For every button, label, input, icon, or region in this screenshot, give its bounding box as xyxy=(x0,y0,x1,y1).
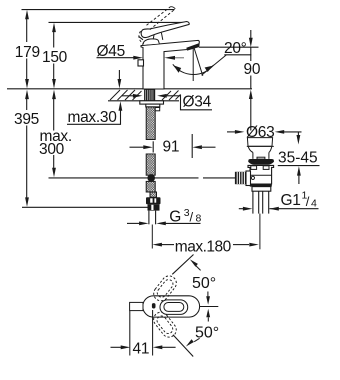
supply hose middle xyxy=(146,154,155,175)
drain bell neck xyxy=(248,147,272,153)
drain body mid line xyxy=(250,174,272,176)
supply hose lower xyxy=(146,181,155,192)
max180 dim line xyxy=(162,244,250,246)
dimension 395 vertical line xyxy=(26,98,28,200)
cartridge dome xyxy=(143,39,160,45)
max30 top arrow line xyxy=(118,70,120,81)
dimension max300 vertical line xyxy=(53,98,55,170)
shank washer xyxy=(140,101,164,104)
angle arc arrowheads xyxy=(173,65,181,72)
max30 label frame xyxy=(67,110,121,125)
drain tailpipe xyxy=(253,191,269,213)
svg-text:/: / xyxy=(306,194,310,209)
rod knurled knob xyxy=(235,172,246,184)
drain flange rim xyxy=(247,145,274,147)
Ø34 label frame xyxy=(181,95,213,110)
dim 90 vertical line xyxy=(250,30,252,131)
bottom reference line hoses xyxy=(22,206,148,208)
shank nut xyxy=(146,104,160,107)
dashed rotated lever up xyxy=(151,273,180,340)
lever neck xyxy=(153,33,163,40)
dimension 179 vertical line xyxy=(26,17,28,81)
svg-text:Ø63: Ø63 xyxy=(246,124,274,141)
svg-text:395: 395 xyxy=(14,111,39,128)
svg-text:50°: 50° xyxy=(195,325,219,342)
G38 tube extension line xyxy=(151,225,153,249)
svg-text:179: 179 xyxy=(15,44,40,61)
angle arc xyxy=(173,64,214,74)
deck top line xyxy=(7,88,252,90)
svg-text:150: 150 xyxy=(42,49,68,66)
drain flange cup xyxy=(247,138,272,147)
G38 fitting lower xyxy=(148,204,160,210)
Ø34 arrows lines xyxy=(122,95,180,97)
overflow notch xyxy=(257,157,265,159)
drain body bottom band xyxy=(250,184,272,187)
rod pivot pin xyxy=(251,176,254,179)
drain locknut xyxy=(252,187,271,192)
aerator xyxy=(187,44,199,50)
faucet body front view xyxy=(141,40,199,89)
drain body clips xyxy=(251,166,257,170)
svg-text:41: 41 xyxy=(133,341,150,358)
svg-text:Ø45: Ø45 xyxy=(97,43,125,60)
svg-text:4: 4 xyxy=(311,198,317,210)
svg-text:90: 90 xyxy=(244,61,261,78)
arrowheads dims xyxy=(25,10,301,349)
deck bottom line xyxy=(108,100,179,102)
pop-up drain: Ø63 dim line xyxy=(227,131,302,133)
hose side tab xyxy=(155,108,160,111)
rod bracket xyxy=(246,171,251,186)
svg-text:max.180: max.180 xyxy=(175,239,232,256)
supply hose upper xyxy=(146,107,155,140)
svg-text:G: G xyxy=(169,209,181,226)
upper rotated axis extension xyxy=(172,255,193,275)
spout angle slant line xyxy=(194,47,203,76)
upper 50 leader and arrowheads xyxy=(195,265,201,271)
body side tab xyxy=(138,60,144,66)
svg-text:35-45: 35-45 xyxy=(278,149,318,166)
lever knob tail xyxy=(139,36,143,40)
svg-text:8: 8 xyxy=(196,213,202,225)
drain center extension line xyxy=(259,214,261,250)
deck hatch right xyxy=(162,91,181,101)
top reference line 150 xyxy=(49,21,187,23)
20deg leader line xyxy=(202,55,227,76)
svg-text:/: / xyxy=(190,210,194,225)
svg-text:300: 300 xyxy=(39,141,65,158)
lower rotated axis extension xyxy=(173,335,193,357)
lower 50 leader and arrowheads xyxy=(194,338,199,341)
spout angle vertical line xyxy=(192,47,194,81)
svg-text:G1: G1 xyxy=(281,192,301,209)
top reference line 179 xyxy=(22,9,175,11)
hose end thread xyxy=(150,192,157,197)
svg-text:91: 91 xyxy=(163,138,180,155)
svg-text:max.30: max.30 xyxy=(68,109,118,126)
spout outlet reference line xyxy=(199,46,259,48)
svg-text:20°: 20° xyxy=(224,40,247,57)
drain upper cylinder xyxy=(253,152,269,159)
svg-text:50°: 50° xyxy=(192,275,216,292)
pop-up rod line xyxy=(49,177,199,179)
20deg underline xyxy=(224,54,251,56)
svg-text:Ø34: Ø34 xyxy=(183,94,212,111)
top view lever ring xyxy=(160,300,188,315)
dim 91 xyxy=(130,134,216,158)
G38 fitting cap xyxy=(146,197,161,204)
G38 tube xyxy=(149,211,156,225)
rod junction dot xyxy=(147,174,155,182)
pivot bar xyxy=(152,303,156,308)
horizontal arrow under spout xyxy=(175,57,185,59)
drain body xyxy=(248,165,274,184)
white boxes behind on-line texts xyxy=(13,42,261,155)
lever handle xyxy=(141,22,189,38)
top view body pill xyxy=(143,296,200,317)
dim 41 lines xyxy=(111,346,176,348)
35-45 dim xyxy=(278,132,320,184)
dimension 150 vertical line xyxy=(53,30,55,81)
drain washer dark xyxy=(248,159,274,165)
raised lever dashed xyxy=(147,7,176,30)
knob path dashed arc xyxy=(139,31,144,44)
lever axis line right xyxy=(200,306,219,308)
threaded shank xyxy=(145,89,155,100)
G38 dim underline xyxy=(166,222,201,224)
Ø45 underline xyxy=(97,57,134,59)
top view spout stub xyxy=(130,302,143,310)
deck hatch left xyxy=(110,90,142,100)
dim 41 extension lines xyxy=(130,310,153,356)
G1 1/4 dim xyxy=(239,208,319,210)
